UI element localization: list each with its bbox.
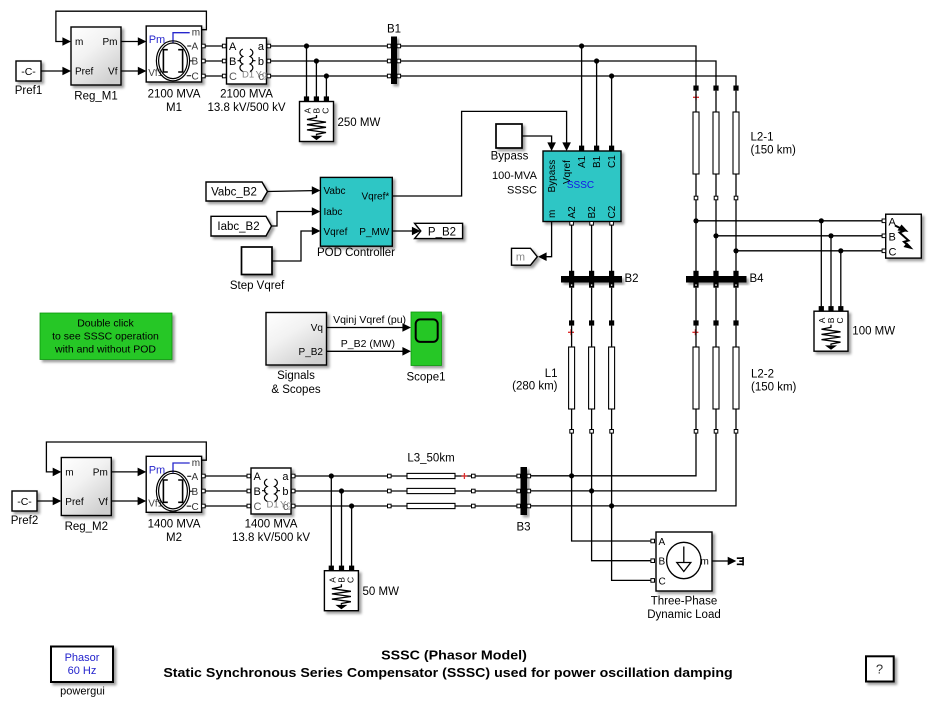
- wire Pref2 to Reg_M2: [37, 497, 61, 506]
- wire fault phase A: [696, 220, 882, 222]
- from tag Vabc_B2: [206, 182, 268, 201]
- wire L2-1 to bus B4 phase B: [715, 200, 717, 272]
- svg-text:Bypass: Bypass: [491, 151, 529, 163]
- junction dots to 250 MW load: [304, 43, 329, 78]
- svg-text:POD Controller: POD Controller: [317, 247, 395, 259]
- svg-text:m: m: [65, 468, 73, 479]
- svg-text:with and without POD: with and without POD: [54, 344, 156, 356]
- wire drop phase B to 100 MW load: [830, 236, 832, 307]
- line L3 port squares left: [388, 474, 392, 508]
- goto tag m: [512, 248, 538, 265]
- wire tap to SSSC C1: [611, 76, 613, 146]
- terminator: [737, 557, 743, 566]
- svg-text:B2: B2: [625, 273, 639, 285]
- svg-text:Pm: Pm: [93, 468, 108, 479]
- svg-text:Vf: Vf: [108, 67, 118, 78]
- wire T2-b to line L3: [295, 490, 388, 492]
- line L2-1 bottom port squares: [694, 196, 738, 200]
- svg-text:Pref: Pref: [65, 497, 84, 508]
- SSSC top pads A1 B1 C1: [579, 146, 614, 151]
- svg-text:Three-Phase: Three-Phase: [651, 596, 717, 608]
- label L2-1 150 km: [751, 132, 797, 157]
- svg-text:B1: B1: [387, 24, 401, 36]
- svg-text:SSSC (Phasor Model): SSSC (Phasor Model): [381, 649, 527, 663]
- svg-text:Pref2: Pref2: [11, 515, 39, 527]
- wire Pm Reg_M2 to machine M2: [111, 468, 146, 477]
- line L2-2 top pads: [693, 320, 738, 325]
- svg-text:L1: L1: [545, 368, 558, 380]
- port squares machine M2 outputs: [202, 474, 206, 508]
- wire SSSC m to goto tag m: [538, 222, 552, 262]
- wire T2-c to line L3: [295, 505, 388, 507]
- port squares transformer T1: [222, 44, 270, 78]
- svg-text:B: B: [659, 557, 666, 568]
- wire Vf Reg_M2 to machine M2: [111, 497, 146, 506]
- wire M1-C to transformer T1: [205, 75, 222, 77]
- wire SSSC A2 to bus B2: [571, 225, 573, 271]
- svg-text:powergui: powergui: [60, 686, 105, 698]
- junction dots fault taps: [693, 218, 738, 253]
- svg-text:13.8 kV/500 kV: 13.8 kV/500 kV: [232, 532, 310, 544]
- svg-text:m: m: [75, 37, 83, 48]
- subsystem Reg_M1: [71, 27, 121, 103]
- wire dynamic load m to terminator: [712, 557, 736, 566]
- svg-text:C1: C1: [607, 155, 618, 168]
- bus B4: [686, 271, 764, 288]
- svg-text:Scope1: Scope1: [406, 372, 445, 384]
- svg-text:(150 km): (150 km): [751, 382, 797, 394]
- wire L2-1 to bus B4 phase C: [735, 200, 737, 272]
- synchronous machine M2 1400 MVA: [146, 456, 201, 544]
- wires L1 bottom: [571, 409, 573, 430]
- line L1 bottom port squares: [570, 430, 614, 434]
- svg-text:Pref: Pref: [75, 67, 94, 78]
- svg-text:& Scopes: & Scopes: [271, 384, 320, 396]
- svg-text:Vqref*: Vqref*: [362, 192, 390, 203]
- svg-text:Phasor: Phasor: [65, 652, 100, 664]
- wire B1 phase C to L2-1: [401, 76, 736, 86]
- wire SSSC B2 to bus B2: [591, 225, 593, 271]
- svg-text:B3: B3: [516, 522, 530, 534]
- wires L2-2 bottom: [695, 409, 697, 430]
- synchronous machine M1 2100 MVA: [146, 26, 201, 114]
- svg-text:L3_50km: L3_50km: [407, 453, 454, 465]
- wire drop phase C to 250 MW load: [325, 76, 327, 97]
- wire B2 to line L1 phase B: [591, 288, 593, 321]
- annotation double click: [40, 313, 172, 360]
- wire L1-B down to dynamic load B: [592, 433, 651, 561]
- svg-text:60 Hz: 60 Hz: [68, 665, 97, 677]
- scope block Scope1: [406, 312, 445, 384]
- wire B3 to L2-2 phase A: [531, 433, 696, 476]
- wire B1 phase B to L2-1: [401, 61, 716, 86]
- svg-text:Vabc: Vabc: [324, 186, 346, 197]
- SSSC bottom port squares A2 B2 C2: [570, 222, 614, 226]
- wire drop phase C to 50 MW load: [351, 506, 353, 566]
- label L1 280 km: [512, 368, 558, 393]
- svg-text:Vqinj Vqref (pu): Vqinj Vqref (pu): [333, 314, 406, 326]
- svg-text:L2-2: L2-2: [751, 369, 774, 381]
- bus B1: [387, 24, 401, 85]
- wire drop phase B to 250 MW load: [315, 61, 317, 97]
- title annotation: [163, 649, 732, 681]
- svg-text:B1: B1: [592, 155, 603, 168]
- wire L3 to bus B3 phase C: [475, 505, 517, 507]
- line L1 280km elements: [569, 347, 615, 409]
- junction dots to 50 MW load: [329, 473, 355, 508]
- junction dots on B3 feeders: [569, 473, 614, 508]
- wire M2-A to transformer T2: [205, 475, 247, 477]
- wires L2-1 bottom: [695, 174, 697, 196]
- svg-text:m: m: [547, 210, 558, 218]
- wire SSSC C2 to bus B2: [611, 225, 613, 271]
- port squares transformer T2: [247, 474, 295, 508]
- svg-text:2100 MVA: 2100 MVA: [220, 89, 273, 101]
- wire B4 to line L2-2 phase C: [735, 288, 737, 321]
- wire fault phase C: [736, 250, 882, 252]
- junction dots SSSC taps: [579, 43, 614, 78]
- svg-text:Iabc: Iabc: [324, 207, 343, 218]
- load 250 MW: [300, 96, 381, 141]
- subsystem Reg_M2: [61, 458, 111, 534]
- svg-text:Signals: Signals: [277, 370, 315, 382]
- wire Pm Reg_M1 to machine M1: [121, 37, 146, 46]
- wire Vqref* POD to SSSC Vqref: [392, 111, 571, 196]
- wire M2-C to transformer T2: [205, 505, 247, 507]
- constant block Pref1: [15, 61, 43, 97]
- svg-text:Iabc_B2: Iabc_B2: [217, 221, 259, 233]
- svg-text:m: m: [516, 252, 525, 264]
- junction dots 100 MW taps: [819, 218, 844, 253]
- svg-text:Vf: Vf: [98, 497, 108, 508]
- label L2-2 150 km: [751, 369, 797, 394]
- svg-text:SSSC: SSSC: [507, 185, 537, 197]
- wire B3 to L2-2 phase B: [531, 433, 716, 491]
- svg-text:Vq: Vq: [311, 323, 323, 334]
- line L2-1 150km elements: [693, 112, 739, 174]
- goto tag P_B2: [415, 223, 463, 238]
- wire B4 to line L2-2 phase A: [695, 288, 697, 321]
- wire B1 phase A to L2-1: [401, 46, 696, 86]
- line L2-2 150km elements: [693, 347, 739, 409]
- wire M1-B to transformer T1: [205, 60, 222, 62]
- load 100 MW: [814, 306, 895, 351]
- svg-text:1400 MVA: 1400 MVA: [148, 519, 201, 531]
- red marker L2-2: [692, 329, 698, 335]
- subsystem SSSC 100 MVA: [543, 151, 621, 222]
- svg-text:C: C: [659, 576, 666, 587]
- wire Vq to Scope1: [327, 314, 412, 332]
- wire fault phase B: [716, 235, 882, 237]
- svg-text:to see SSSC operation: to see SSSC operation: [52, 331, 159, 343]
- subsystem POD Controller: [317, 177, 395, 259]
- svg-text:-C-: -C-: [21, 66, 36, 78]
- svg-text:(280 km): (280 km): [512, 381, 558, 393]
- load 50 MW: [324, 566, 399, 611]
- svg-text:Reg_M2: Reg_M2: [65, 521, 108, 533]
- svg-text:250 MW: 250 MW: [338, 117, 381, 129]
- svg-text:C2: C2: [607, 205, 618, 218]
- red marker L3: [461, 473, 467, 479]
- line L3 port squares right: [472, 474, 476, 508]
- dynamic load port squares: [651, 539, 655, 582]
- wire B3 to L2-2 phase C: [531, 433, 736, 506]
- svg-text:P_B2: P_B2: [428, 226, 456, 238]
- transformer T2 1400 MVA 13.8kV/500kV: [232, 468, 310, 544]
- svg-text:P_B2 (MW): P_B2 (MW): [341, 338, 395, 350]
- svg-text:Step Vqref: Step Vqref: [230, 280, 285, 292]
- wire Vf Reg_M1 to machine M1: [121, 67, 146, 76]
- wire L1-C down to dynamic load C: [612, 433, 651, 580]
- wire drop phase C to 100 MW load: [840, 251, 842, 307]
- svg-text:100-MVA: 100-MVA: [492, 170, 538, 182]
- svg-text:B4: B4: [750, 273, 765, 285]
- wires into line L1: [571, 326, 573, 347]
- wire P_MW to goto tag P_B2: [392, 227, 420, 236]
- svg-text:A2: A2: [567, 206, 578, 219]
- svg-text:2100 MVA: 2100 MVA: [148, 89, 201, 101]
- line L2-1 top pads: [693, 86, 738, 91]
- wire drop phase B to 50 MW load: [341, 491, 343, 566]
- svg-text:(150 km): (150 km): [751, 145, 797, 157]
- wire Bypass to SSSC: [522, 136, 556, 151]
- svg-text:B: B: [889, 231, 896, 243]
- wire Step Vqref to POD: [272, 227, 320, 261]
- transformer T1 2100 MVA 13.8kV/500kV: [208, 38, 286, 114]
- svg-text:1400 MVA: 1400 MVA: [245, 519, 298, 531]
- wire drop phase A to 100 MW load: [820, 221, 822, 307]
- line L3 50km elements: [391, 473, 471, 508]
- subsystem Signals & Scopes: [266, 313, 327, 397]
- svg-text:A1: A1: [577, 155, 588, 168]
- from tag Iabc_B2: [211, 216, 272, 236]
- svg-text:C: C: [889, 246, 897, 258]
- line L2-2 bottom port squares: [694, 430, 738, 434]
- wire P_B2 to Scope1: [327, 338, 412, 356]
- port squares machine M1 outputs A B C: [202, 44, 206, 78]
- bus B2: [561, 271, 639, 288]
- wire Pref1 to Reg_M1: [41, 67, 71, 76]
- svg-text:Vabc_B2: Vabc_B2: [211, 187, 257, 199]
- feedback wire m M2 to Reg_M2: [46, 442, 206, 476]
- wires into L2-1: [695, 91, 697, 112]
- wire B2 to line L1 phase C: [611, 288, 613, 321]
- help block ?: [866, 656, 894, 681]
- svg-text:SSSC: SSSC: [567, 180, 594, 191]
- svg-text:Reg_M1: Reg_M1: [74, 91, 117, 103]
- wire M2-B to transformer T2: [205, 490, 247, 492]
- step block Step Vqref: [230, 247, 285, 292]
- svg-text:A: A: [659, 537, 666, 548]
- svg-text:m: m: [700, 557, 708, 568]
- constant block Pref2: [11, 491, 39, 527]
- svg-text:M1: M1: [166, 102, 182, 114]
- wire T2-a to line L3: [295, 475, 388, 477]
- wire Iabc_B2 to POD: [272, 207, 321, 226]
- wire L2-1 to bus B4 phase A: [695, 200, 697, 272]
- wire tap to SSSC A1: [581, 46, 583, 146]
- svg-text:B2: B2: [587, 206, 598, 219]
- svg-text:13.8 kV/500 kV: 13.8 kV/500 kV: [208, 102, 286, 114]
- wire drop phase A to 50 MW load: [330, 476, 332, 566]
- svg-text:50 MW: 50 MW: [363, 586, 400, 598]
- wire T1-b to bus B1: [271, 60, 388, 62]
- three-phase dynamic load block: [647, 532, 721, 621]
- bus B3: [516, 467, 530, 534]
- powergui block: [51, 647, 113, 698]
- manual switch block Bypass: [491, 124, 529, 163]
- wire M1-A to transformer T1: [205, 45, 222, 47]
- wire L3 to bus B3 phase A: [475, 475, 517, 477]
- wire L1-A down to dynamic load A: [572, 433, 651, 541]
- svg-text:Static Synchronous Series Comp: Static Synchronous Series Compensator (S…: [163, 666, 732, 680]
- line L1 top pads: [569, 320, 614, 325]
- svg-text:M2: M2: [166, 532, 182, 544]
- svg-text:-C-: -C-: [17, 496, 32, 508]
- feedback wire m M1 to Reg_M1: [56, 11, 207, 46]
- three-phase fault block: [886, 214, 922, 258]
- svg-text:Pref1: Pref1: [15, 85, 43, 97]
- wire T1-c to bus B1: [271, 75, 388, 77]
- svg-text:Bypass: Bypass: [547, 160, 558, 193]
- red marker L2-1: [693, 94, 699, 100]
- svg-text:Vqref: Vqref: [324, 227, 348, 238]
- svg-text:P_MW: P_MW: [359, 227, 390, 238]
- svg-text:L2-1: L2-1: [751, 132, 774, 144]
- svg-text:Dynamic Load: Dynamic Load: [647, 609, 721, 621]
- wire B2 to line L1 phase A: [571, 288, 573, 321]
- wires into L2-2: [695, 326, 697, 347]
- fault block port squares: [882, 219, 886, 253]
- svg-text:Pm: Pm: [103, 37, 118, 48]
- svg-text:?: ?: [876, 662, 883, 677]
- wire Vabc_B2 to POD: [268, 186, 321, 195]
- svg-text:P_B2: P_B2: [299, 347, 324, 358]
- wire B4 to line L2-2 phase B: [715, 288, 717, 321]
- wire tap to SSSC B1: [596, 61, 598, 146]
- wire drop phase A to 250 MW load: [306, 46, 308, 97]
- svg-text:100 MW: 100 MW: [852, 326, 895, 338]
- svg-text:Double click: Double click: [77, 318, 134, 330]
- wire L3 to bus B3 phase B: [475, 490, 517, 492]
- wire T1-a to bus B1: [271, 45, 388, 47]
- label 100-MVA SSSC: [492, 170, 538, 197]
- red marker L1: [568, 329, 574, 335]
